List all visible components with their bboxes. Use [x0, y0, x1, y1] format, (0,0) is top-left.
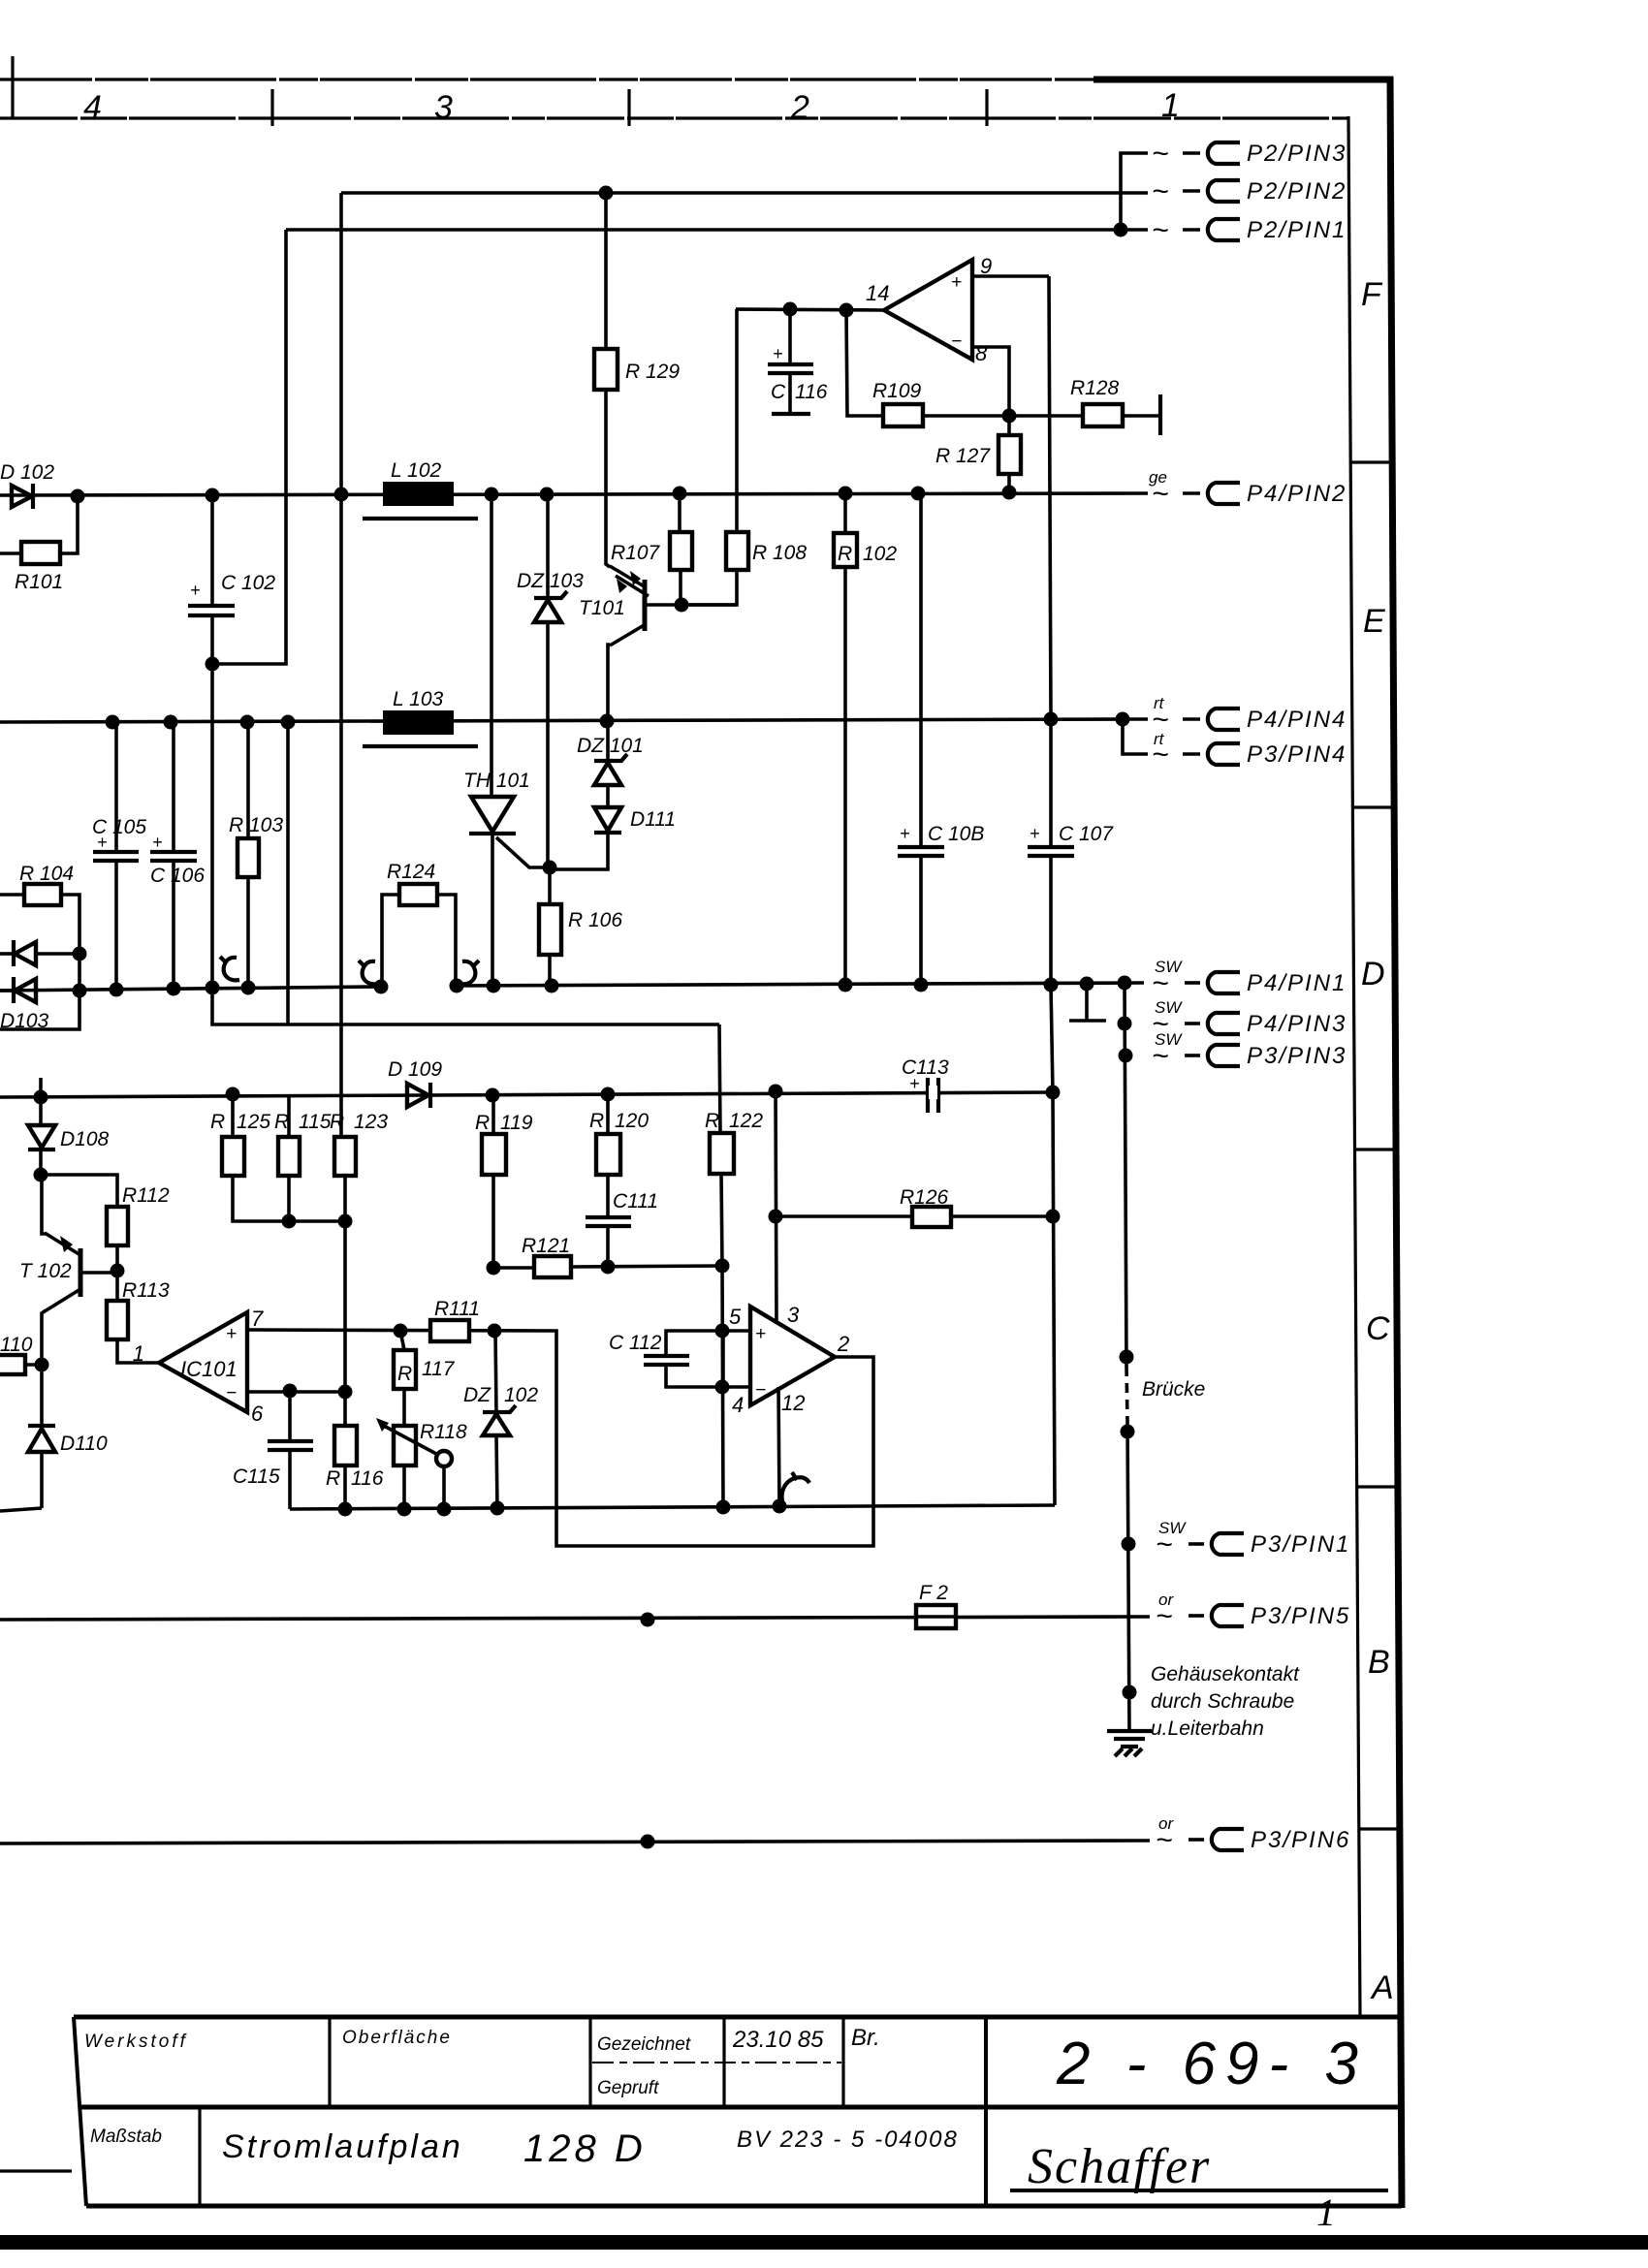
svg-text:~: ~ [1152, 967, 1169, 999]
resistor R127 [935, 416, 1021, 492]
connector P2/PIN2 [1152, 175, 1347, 207]
diode D103 upper [0, 940, 79, 966]
wire vertical x297 from L103 rail down to 1057 line [286, 722, 290, 1024]
wire op2 inputs [722, 1331, 750, 1387]
svg-text:T 102: T 102 [19, 1260, 72, 1282]
svg-text:3: 3 [787, 1303, 800, 1327]
svg-text:Oberfläche: Oberfläche [342, 2028, 452, 2048]
zener DZ103 [517, 494, 584, 867]
svg-text:P3/PIN6: P3/PIN6 [1251, 1827, 1350, 1853]
node D rail junctions [73, 984, 87, 998]
connector P4/PIN2 [1149, 468, 1347, 510]
resistor R110 partial at edge [0, 1334, 42, 1374]
wire C102 line continues down to D rail [210, 664, 214, 988]
svg-text:DZ: DZ [463, 1384, 491, 1406]
svg-text:116: 116 [351, 1467, 384, 1490]
svg-text:L 103: L 103 [393, 688, 443, 710]
resistor R126 [776, 1186, 1053, 1227]
node R112 R113 junction [111, 1264, 125, 1278]
zener DZ101 [577, 735, 644, 785]
svg-text:P3/PIN5: P3/PIN5 [1251, 1603, 1350, 1629]
svg-text:C 10B: C 10B [928, 823, 984, 845]
svg-text:110: 110 [0, 1334, 33, 1356]
svg-text:P3/PIN1: P3/PIN1 [1251, 1531, 1350, 1558]
resistor R120 [589, 1094, 649, 1216]
wire DZ101 D111 branch [550, 721, 608, 869]
svg-text:D 109: D 109 [388, 1058, 442, 1081]
svg-text:−: − [226, 1383, 237, 1403]
resistor R107 [611, 493, 692, 605]
svg-text:1: 1 [133, 1341, 144, 1366]
diode D102 [0, 461, 54, 509]
svg-text:P4/PIN3: P4/PIN3 [1247, 1011, 1347, 1037]
connector P3/PIN3 [1152, 1030, 1347, 1072]
node Bruecke lower [1121, 1425, 1135, 1439]
wire P2/PIN2 rail [341, 191, 1148, 195]
wire plus feedback loop [553, 1331, 873, 1546]
svg-text:+: + [951, 272, 962, 293]
svg-text:R128: R128 [1070, 377, 1120, 399]
wire P4/PIN4 rail (L103 rail) [0, 719, 1123, 722]
wire F2 line to P3/PIN5 [0, 1617, 1150, 1620]
resistor R112 [41, 1175, 170, 1271]
svg-text:R121: R121 [522, 1235, 570, 1257]
svg-text:durch Schraube: durch Schraube [1151, 1690, 1294, 1713]
connector P4/PIN1 [1152, 958, 1347, 999]
capacitor C102 [188, 495, 275, 664]
svg-text:1: 1 [1161, 87, 1180, 124]
svg-text:D111: D111 [630, 808, 676, 831]
svg-text:2 - 69- 3: 2 - 69- 3 [1056, 2031, 1368, 2097]
wire R108 top to op amp input wire [735, 309, 739, 532]
node Bruecke upper [1120, 1350, 1134, 1365]
svg-text:122: 122 [729, 1110, 763, 1132]
diode D110 [28, 1426, 108, 1508]
svg-text:DZ 101: DZ 101 [577, 735, 644, 757]
node minus wire junctions [283, 1384, 298, 1399]
svg-text:4: 4 [83, 89, 102, 126]
node T101 base junction [675, 598, 689, 613]
svg-text:Maßstab: Maßstab [90, 2126, 162, 2147]
node F2 line junction [641, 1613, 655, 1627]
capacitor C107 [1028, 719, 1114, 985]
connector P3/PIN6 [1156, 1814, 1350, 1856]
svg-text:Gehäusekontakt: Gehäusekontakt [1151, 1663, 1300, 1685]
svg-text:C 102: C 102 [221, 572, 275, 594]
svg-text:E: E [1363, 603, 1385, 640]
resistor R106 [539, 867, 622, 986]
node L103 rail junctions [106, 715, 120, 730]
svg-text:P2/PIN2: P2/PIN2 [1247, 178, 1347, 205]
svg-text:R: R [589, 1110, 604, 1132]
node R125 net junctions [282, 1214, 297, 1229]
node P2/PIN1 junction [1114, 223, 1128, 237]
svg-text:+: + [755, 1324, 766, 1344]
svg-text:117: 117 [422, 1358, 456, 1380]
node D108 bottom junction [34, 1168, 48, 1182]
diode D108 [28, 1078, 110, 1175]
capacitor C10B [898, 493, 984, 985]
resistor R119 [475, 1095, 533, 1268]
wire P2/PIN1 rail [286, 228, 1148, 232]
svg-text:Stromlaufplan: Stromlaufplan [222, 2128, 463, 2165]
svg-text:14: 14 [866, 281, 889, 305]
node C rail junctions [34, 1090, 48, 1105]
svg-text:R: R [475, 1112, 490, 1134]
connector P4/PIN3 [1152, 998, 1347, 1040]
resistor R122 [705, 1024, 763, 1266]
resistor R102 [834, 493, 897, 985]
resistor R104 [0, 863, 79, 954]
svg-text:128 D: 128 D [523, 2127, 647, 2170]
capacitor C105 [92, 722, 146, 990]
wire mega vertical pin9 to bottom rail [1049, 276, 1055, 1505]
svg-text:P2/PIN3: P2/PIN3 [1247, 141, 1347, 167]
svg-text:D108: D108 [60, 1128, 110, 1150]
svg-text:BV 223 - 5 -04008: BV 223 - 5 -04008 [737, 2126, 959, 2153]
svg-text:P4/PIN1: P4/PIN1 [1247, 970, 1347, 996]
svg-text:+: + [97, 833, 108, 852]
wire vertical from P2/PIN2 rail corner down to ge rail and R123 [339, 193, 343, 1137]
capacitor C116 [768, 309, 828, 414]
svg-text:P4/PIN4: P4/PIN4 [1247, 707, 1347, 733]
resistor R123 [330, 1111, 388, 1221]
connector P2/PIN3 [1152, 138, 1347, 170]
potentiometer R118 [376, 1418, 467, 1509]
svg-text:C: C [1366, 1310, 1390, 1347]
node op2 input junctions [715, 1324, 730, 1339]
resistor R113 [107, 1271, 170, 1363]
svg-text:8: 8 [975, 341, 988, 365]
node D103 upper junction [73, 947, 87, 961]
svg-text:F 2: F 2 [919, 1582, 948, 1604]
node ge rail junctions [71, 489, 85, 504]
wire R122 node down through op2 inputs to bottom rail [722, 1266, 723, 1507]
capacitor C112 [609, 1331, 722, 1387]
svg-text:−: − [951, 331, 962, 352]
resistor R129 [594, 193, 680, 390]
resistor R115 [274, 1096, 332, 1221]
svg-text:Gepruft: Gepruft [597, 2078, 659, 2098]
connector P4/PIN4 [1152, 694, 1347, 736]
wire P4/PIN1 D rail right segment [457, 983, 1144, 986]
svg-text:C: C [771, 381, 786, 403]
thyristor TH101 [463, 494, 551, 986]
svg-text:Brücke: Brücke [1142, 1378, 1205, 1401]
inductor L102 [363, 459, 478, 519]
wire jog to P3/PIN4 [1123, 717, 1148, 721]
resistor R125 [210, 1094, 345, 1221]
svg-text:P3/PIN4: P3/PIN4 [1247, 741, 1347, 768]
wire IC101 plus input wire [247, 1330, 553, 1331]
svg-text:~: ~ [1152, 739, 1169, 771]
svg-text:T101: T101 [579, 597, 625, 619]
connector P3/PIN4 [1152, 730, 1347, 771]
resistor R124 [382, 861, 456, 987]
svg-text:R: R [330, 1111, 344, 1133]
wire D103 return to left edge [0, 954, 79, 1029]
svg-text:1: 1 [1316, 2190, 1336, 2234]
svg-text:D 102: D 102 [0, 461, 54, 484]
svg-text:2: 2 [837, 1332, 849, 1356]
svg-text:R: R [274, 1111, 289, 1133]
title block [74, 2017, 1402, 2234]
svg-text:D: D [1361, 956, 1385, 992]
svg-text:Gezeichnet: Gezeichnet [597, 2034, 691, 2055]
svg-text:R112: R112 [122, 1184, 170, 1207]
svg-text:119: 119 [500, 1112, 533, 1134]
connector P3/PIN1 [1156, 1519, 1350, 1560]
inductor L103 [363, 688, 478, 746]
wire op input 14 wire [736, 309, 884, 310]
capacitor C113 [902, 1056, 949, 1113]
wire P2/PIN3 stub [1121, 153, 1148, 230]
svg-text:D110: D110 [60, 1433, 108, 1455]
resistor R103 [229, 722, 283, 988]
node R111 row junctions [394, 1324, 408, 1339]
svg-text:IC101: IC101 [180, 1357, 238, 1381]
svg-text:+: + [1030, 824, 1040, 843]
svg-text:23.10 85: 23.10 85 [732, 2027, 824, 2053]
diode D109 [388, 1058, 442, 1108]
svg-text:R 103: R 103 [229, 814, 283, 836]
svg-text:3: 3 [434, 89, 453, 126]
wire T102 collector down [42, 1310, 46, 1424]
svg-text:R: R [210, 1111, 225, 1133]
svg-text:R: R [705, 1110, 719, 1132]
node feedback junction [1002, 409, 1017, 424]
svg-text:R111: R111 [434, 1298, 480, 1320]
svg-text:C115: C115 [233, 1465, 280, 1488]
svg-text:C 112: C 112 [609, 1332, 662, 1354]
winding curl at op2 pin12 [782, 1472, 809, 1501]
svg-text:R 129: R 129 [625, 361, 680, 383]
node R121 row junctions [487, 1261, 501, 1276]
wire C102 bottom jog to x295 vertical [212, 230, 286, 664]
svg-text:B: B [1368, 1644, 1390, 1681]
capacitor C115 [233, 1391, 313, 1509]
wire C rail [0, 1092, 1053, 1097]
wire op2 pin3 vertical to C rail [776, 1091, 776, 1324]
wire C rail gap cover for C113 [929, 1086, 937, 1099]
svg-text:~: ~ [1156, 1600, 1173, 1632]
resistor R128 [1009, 377, 1160, 435]
svg-text:123: 123 [354, 1111, 388, 1133]
svg-text:~: ~ [1152, 214, 1169, 246]
svg-text:115: 115 [299, 1111, 332, 1133]
zener DZ102 [463, 1331, 538, 1508]
wire op2 pin12 vertical to bottom rail [778, 1387, 779, 1506]
svg-text:F: F [1361, 276, 1383, 313]
svg-text:~: ~ [1156, 1528, 1173, 1560]
diode D103 lower [0, 977, 49, 1032]
svg-text:6: 6 [251, 1402, 264, 1426]
wire R116 branch [343, 1392, 347, 1426]
svg-text:R: R [397, 1363, 412, 1385]
svg-text:+: + [909, 1074, 920, 1093]
connector P2/PIN1 [1152, 214, 1347, 246]
signature Schaffer [1010, 2139, 1388, 2234]
svg-text:R: R [326, 1467, 340, 1490]
svg-text:120: 120 [615, 1110, 649, 1132]
node P3/PIN3 junction [1119, 1049, 1133, 1063]
svg-text:R113: R113 [122, 1279, 170, 1302]
svg-text:R 108: R 108 [752, 542, 807, 564]
winding curl left [220, 957, 239, 980]
resistor R101 [0, 496, 78, 593]
wire bottom rail [290, 1505, 1055, 1509]
wire IC101 minus wire [247, 1390, 345, 1394]
resistor R111 [430, 1298, 480, 1341]
svg-text:+: + [190, 581, 201, 600]
node P4/PIN3 junction [1118, 1017, 1132, 1031]
svg-text:R: R [838, 543, 852, 565]
svg-text:Schaffer: Schaffer [1028, 2139, 1211, 2194]
resistor R109 [846, 310, 1009, 426]
svg-text:R124: R124 [387, 861, 435, 883]
capacitor C111 [586, 1190, 658, 1267]
svg-text:−: − [755, 1380, 766, 1401]
svg-text:116: 116 [795, 381, 828, 403]
node R109 tap [840, 303, 854, 318]
svg-text:~: ~ [1156, 1824, 1173, 1856]
node C102 bottom [206, 657, 220, 672]
fuse F2 [916, 1582, 956, 1628]
svg-text:C 106: C 106 [150, 865, 205, 887]
op-amp U1b pins 14 9 8 [866, 254, 1049, 415]
svg-text:R 106: R 106 [568, 909, 622, 931]
svg-text:R118: R118 [420, 1421, 467, 1443]
wire P3/PIN6 line [0, 1841, 1150, 1843]
connector P3/PIN5 [1156, 1591, 1350, 1632]
svg-text:2: 2 [790, 89, 809, 126]
svg-text:~: ~ [1152, 478, 1169, 510]
svg-text:R107: R107 [611, 542, 661, 564]
svg-text:+: + [773, 344, 783, 363]
svg-text:R109: R109 [872, 380, 922, 402]
svg-text:C 107: C 107 [1059, 823, 1114, 845]
resistor R121 [493, 1235, 722, 1277]
node P3/PIN1 junction [1122, 1537, 1136, 1552]
wire T101 collector to R129 [606, 390, 610, 567]
svg-text:12: 12 [781, 1391, 805, 1415]
svg-text:+: + [152, 833, 163, 852]
wire 1057 return line [212, 988, 719, 1024]
wire T102 emitter up to D108 node [42, 1175, 46, 1234]
node R126 junctions [769, 1210, 783, 1224]
resistor R108 [681, 532, 807, 605]
stub and bar below D rail [1069, 984, 1106, 1021]
svg-text:P3/PIN3: P3/PIN3 [1247, 1043, 1347, 1069]
winding curl at R124 right [460, 961, 479, 984]
svg-text:102: 102 [504, 1384, 538, 1406]
wire R123 node down to minus wire [343, 1221, 347, 1392]
node bottom rail junctions [338, 1502, 353, 1517]
winding curl at R124 left [359, 961, 378, 984]
node P3/PIN6 line junction [641, 1835, 655, 1849]
svg-text:5: 5 [729, 1305, 742, 1329]
svg-text:~: ~ [1152, 1040, 1169, 1072]
svg-text:C111: C111 [613, 1190, 658, 1213]
svg-text:R101: R101 [15, 571, 63, 593]
svg-text:4: 4 [732, 1393, 744, 1417]
svg-text:L 102: L 102 [391, 459, 441, 482]
capacitor C106 [150, 722, 205, 989]
svg-text:+: + [900, 824, 910, 843]
node R110 junction [35, 1358, 49, 1372]
transistor T102 [19, 1233, 117, 1311]
svg-text:7: 7 [251, 1307, 264, 1331]
svg-text:R 127: R 127 [935, 445, 991, 467]
svg-text:TH 101: TH 101 [463, 770, 530, 792]
wire T101 emitter down to L103 rail [608, 645, 610, 721]
op-amp U1c pins 5 3 4 12 2 [729, 1303, 849, 1417]
node gate junction [543, 861, 557, 875]
wire Bruecke vertical from D rail down [1125, 983, 1129, 1731]
wire P4/PIN1 D rail left segment [0, 987, 381, 991]
svg-text:~: ~ [1152, 138, 1169, 170]
svg-text:DZ 103: DZ 103 [517, 570, 584, 592]
transistor T101 [579, 566, 737, 646]
diode D111 [594, 807, 676, 833]
resistor R117 [394, 1331, 456, 1426]
node C116 tap [783, 302, 798, 317]
svg-text:125: 125 [237, 1111, 270, 1133]
svg-text:u.Leiterbahn: u.Leiterbahn [1151, 1717, 1264, 1740]
svg-text:Br.: Br. [851, 2025, 880, 2051]
svg-text:~: ~ [1152, 175, 1169, 207]
svg-text:R 104: R 104 [19, 863, 74, 885]
svg-text:A: A [1370, 1969, 1394, 2006]
svg-text:P2/PIN1: P2/PIN1 [1247, 217, 1347, 243]
op-amp IC101 [133, 1307, 264, 1426]
svg-text:102: 102 [863, 543, 897, 565]
resistor R116 [326, 1426, 384, 1509]
node Gehaeusekontakt [1123, 1685, 1137, 1700]
wire P4/PIN2 ge rail [0, 493, 1148, 495]
svg-text:Werkstoff: Werkstoff [84, 2032, 188, 2052]
node R129 top [599, 186, 614, 201]
label Gehaeusekontakt [1151, 1663, 1300, 1740]
svg-text:P4/PIN2: P4/PIN2 [1247, 481, 1347, 507]
ground symbol [1107, 1731, 1152, 1756]
wire D110 to left edge [0, 1508, 42, 1511]
svg-text:+: + [226, 1324, 237, 1344]
